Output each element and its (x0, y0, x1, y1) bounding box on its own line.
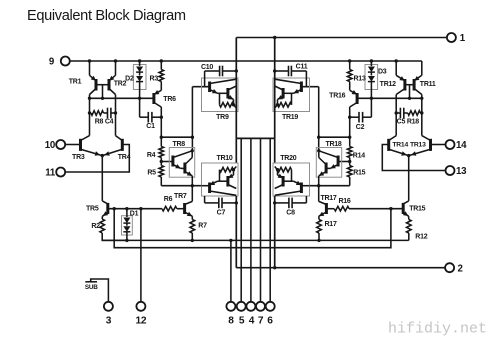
diode D1 (122, 216, 133, 235)
wire pin 12 riser (140, 209, 142, 302)
svg-text:R8 C4: R8 C4 (95, 118, 114, 125)
node diff tail right (407, 154, 410, 157)
wire V+ rail (pin 9) (70, 60, 422, 62)
transistor TR1 (89, 61, 91, 75)
wire pin 8 drop (230, 240, 232, 302)
wire base line to TR6 (90, 97, 154, 99)
svg-text:R5: R5 (147, 169, 156, 176)
svg-text:TR19: TR19 (282, 114, 298, 121)
svg-text:C11: C11 (296, 64, 308, 71)
wire output to TR10 (235, 138, 237, 163)
svg-text:R14: R14 (353, 152, 365, 159)
capacitor C5 + resistor R18 (395, 111, 398, 114)
transistor TR14 (387, 139, 390, 151)
svg-text:1: 1 (460, 33, 466, 44)
wire pin6 leg (269, 138, 271, 302)
svg-text:TR15: TR15 (409, 206, 425, 213)
svg-text:R7: R7 (198, 222, 207, 229)
transistor TR2 (115, 61, 117, 75)
svg-text:R17: R17 (325, 221, 337, 228)
svg-text:TR14: TR14 (392, 142, 408, 149)
capacitor C2 (363, 116, 372, 118)
svg-text:D2: D2 (125, 75, 134, 82)
resistor R6 (162, 206, 177, 211)
transistor TR15 (403, 201, 409, 204)
svg-text:TR9: TR9 (216, 114, 229, 121)
capacitor C11 (305, 71, 307, 78)
diode D2 (133, 65, 146, 90)
svg-text:D3: D3 (378, 68, 387, 75)
svg-text:3: 3 (106, 315, 112, 326)
wire TR9 emitter to output bar (235, 112, 237, 139)
capacitor C7 (204, 196, 206, 203)
wire TR9 base drop (191, 87, 193, 151)
svg-text:TR20: TR20 (280, 155, 296, 162)
resistor R15 (349, 162, 351, 166)
pin 11 (56, 168, 65, 177)
svg-text:TR16: TR16 (329, 93, 345, 100)
transistor TR17 (325, 203, 328, 214)
diode D3 (365, 65, 378, 90)
wire TR19 collector column (274, 38, 276, 79)
resistor R2 (100, 219, 105, 233)
wire output to TR20 (274, 138, 276, 163)
svg-text:R4: R4 (147, 152, 156, 159)
wire TR19 base drop (318, 87, 320, 151)
wire R15 to TR20 base (310, 185, 350, 187)
wire TR1-TR2 base link (96, 84, 109, 86)
svg-text:4: 4 (249, 315, 255, 326)
transistor TR8 (darlington) (169, 148, 194, 178)
svg-text:C8: C8 (286, 209, 295, 216)
svg-text:SUB: SUB (85, 284, 98, 291)
resistor R16 (334, 206, 349, 211)
transistor TR10 (pnp darlington) (202, 163, 239, 196)
wire pin 2 line (236, 267, 445, 269)
wire TR6 collector node (160, 136, 163, 139)
pin 8 (226, 302, 235, 311)
svg-text:TR10: TR10 (216, 155, 232, 162)
pin 12 (136, 302, 145, 311)
transistor TR9 (darlington) (202, 78, 239, 112)
capacitor C8 (305, 196, 307, 203)
svg-text:5: 5 (239, 315, 245, 326)
svg-text:2: 2 (458, 264, 463, 275)
transistor TR16 (pnp) (350, 90, 357, 94)
wire TR10 collector down (235, 196, 237, 268)
svg-text:TR1: TR1 (69, 79, 82, 86)
transistor TR4 (121, 139, 124, 151)
transistor TR18 (darlington) (316, 148, 341, 178)
svg-text:14: 14 (456, 140, 467, 151)
pin 13 (446, 166, 455, 175)
wire TR4 base to pin 11 (65, 145, 129, 173)
wire bias line right (326, 208, 334, 210)
node rail junctions (88, 59, 91, 62)
pin 1 (447, 33, 456, 42)
wire TR20 collector down (274, 196, 276, 268)
svg-text:12: 12 (135, 315, 146, 326)
transistor TR6 (pnp) (154, 90, 161, 94)
resistor R12 (407, 220, 412, 234)
pin 5 (237, 302, 246, 311)
wire output bar (236, 137, 274, 139)
resistor R14 (347, 147, 352, 158)
pin 2 (445, 263, 454, 272)
transistor TR5 (102, 201, 108, 204)
node pin-1 rail junction (273, 36, 276, 39)
pin 3 + SUB (91, 279, 109, 302)
wire pin4 leg (250, 138, 252, 302)
transistor TR19 (darlington) (273, 78, 310, 112)
wire bias line (108, 208, 162, 210)
svg-text:TR7: TR7 (174, 193, 187, 200)
svg-text:11: 11 (45, 167, 56, 178)
wire pin-1 rail (236, 37, 447, 39)
svg-text:C7: C7 (217, 209, 226, 216)
wire TR16 collector node (348, 136, 351, 139)
wire bias tie line B (114, 209, 391, 248)
wire TR14 base to pin 13 (382, 145, 445, 171)
svg-text:D1: D1 (130, 210, 139, 217)
svg-text:TR18: TR18 (325, 141, 341, 148)
svg-text:6: 6 (267, 315, 273, 326)
pin 14 (446, 140, 455, 149)
svg-text:10: 10 (45, 140, 55, 151)
pin 9 (61, 57, 70, 66)
svg-text:hifidiy.net: hifidiy.net (388, 321, 487, 338)
svg-text:R6: R6 (164, 196, 173, 203)
wire TR19 emitter to output bar (274, 112, 276, 139)
pin 4 (246, 302, 255, 311)
wire pin5 leg (240, 138, 242, 302)
svg-text:TR12: TR12 (380, 81, 396, 88)
transistor TR20 (pnp darlington) (273, 163, 310, 196)
node R14-R15 junction (348, 160, 351, 163)
svg-text:TR6: TR6 (163, 96, 176, 103)
svg-text:9: 9 (49, 56, 55, 67)
node R4-R5 junction (160, 160, 163, 163)
pin 10 (56, 140, 65, 149)
transistor TR13 (429, 139, 432, 151)
wire TR9 collector column (235, 38, 237, 79)
svg-text:8: 8 (228, 315, 234, 326)
svg-text:R16: R16 (338, 198, 350, 205)
svg-text:7: 7 (258, 315, 264, 326)
wire R5 to TR10 base (161, 185, 201, 187)
svg-text:C1: C1 (146, 123, 155, 130)
svg-text:R12: R12 (415, 234, 427, 241)
svg-text:C2: C2 (356, 124, 365, 131)
svg-text:C5 R18: C5 R18 (397, 118, 420, 125)
svg-text:R3: R3 (150, 75, 159, 82)
pin 6 (266, 302, 275, 311)
svg-text:13: 13 (456, 166, 467, 177)
resistor R8 + capacitor C4 (88, 111, 91, 114)
resistor R13 (349, 61, 351, 70)
capacitor C10 (204, 71, 206, 78)
resistor R5 (160, 162, 162, 166)
svg-text:C10: C10 (201, 64, 213, 71)
wire pin7 leg (260, 138, 262, 302)
svg-text:TR3: TR3 (72, 154, 85, 161)
transistor TR7 (183, 203, 186, 214)
resistor R3 (160, 61, 162, 70)
wire V- line A (102, 239, 409, 241)
svg-text:R15: R15 (353, 169, 365, 176)
wire TR11-TR12 base link (405, 84, 414, 86)
svg-text:TR17: TR17 (320, 195, 336, 202)
transistor TR12 (395, 61, 397, 75)
transistor TR11 (421, 61, 423, 75)
svg-text:R2: R2 (91, 223, 100, 230)
transistor TR3 (65, 144, 80, 146)
node diff tail (101, 154, 104, 157)
svg-text:Equivalent Block Diagram: Equivalent Block Diagram (27, 8, 186, 24)
svg-text:TR8: TR8 (172, 141, 185, 148)
pin 7 (256, 302, 265, 311)
svg-text:TR13: TR13 (410, 142, 426, 149)
resistor R4 (159, 147, 164, 158)
svg-text:TR5: TR5 (86, 206, 99, 213)
wire TR13 base to pin 14 (431, 144, 446, 146)
resistor R17 (318, 216, 320, 219)
svg-text:R13: R13 (354, 75, 366, 82)
wire base line to TR16 (357, 97, 422, 99)
svg-text:TR11: TR11 (420, 81, 436, 88)
resistor R7 (191, 216, 193, 219)
capacitor C1 (140, 116, 149, 118)
